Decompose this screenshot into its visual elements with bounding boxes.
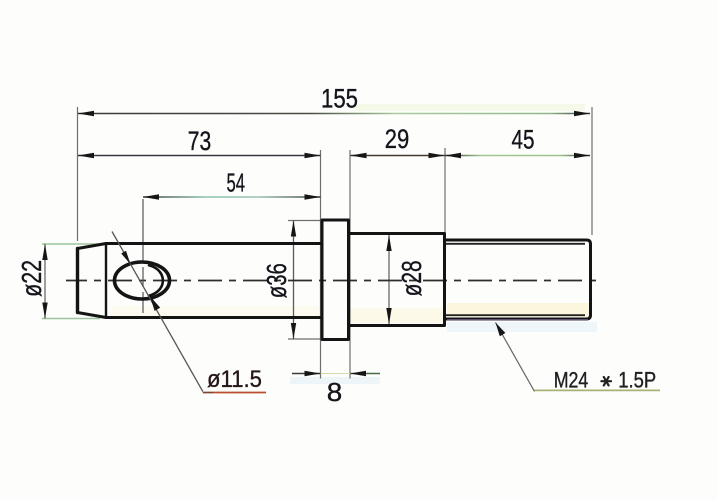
svg-text:54: 54 xyxy=(227,167,246,197)
svg-text:45: 45 xyxy=(512,124,535,154)
svg-text:8: 8 xyxy=(327,377,343,407)
svg-text:ø28: ø28 xyxy=(396,260,427,296)
svg-text:73: 73 xyxy=(188,126,212,156)
svg-text:ø36: ø36 xyxy=(261,263,292,298)
svg-text:1.5P: 1.5P xyxy=(618,368,656,393)
svg-text:ø22: ø22 xyxy=(16,260,47,297)
svg-text:155: 155 xyxy=(321,83,358,113)
svg-text:M24: M24 xyxy=(554,368,589,393)
svg-text:29: 29 xyxy=(385,124,410,154)
svg-text:ø11.5: ø11.5 xyxy=(207,366,262,393)
